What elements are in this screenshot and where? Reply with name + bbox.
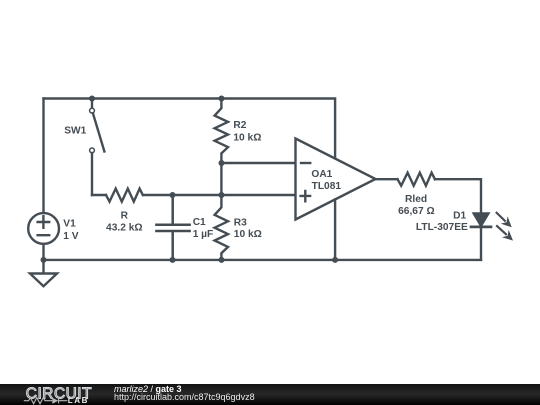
wire top rail	[44, 99, 336, 159]
svg-text:D1: D1	[453, 211, 466, 222]
svg-text:10 kΩ: 10 kΩ	[234, 229, 262, 240]
wire V1 to ground node	[42, 244, 44, 273]
svg-text:1 µF: 1 µF	[193, 229, 214, 240]
svg-text:OA1: OA1	[311, 169, 332, 180]
svg-text:C1: C1	[193, 217, 206, 228]
resistor R2	[215, 99, 228, 164]
svg-text:Rled: Rled	[405, 194, 427, 205]
svg-text:R2: R2	[233, 120, 246, 131]
capacitor C1	[156, 195, 189, 260]
svg-text:66,67 Ω: 66,67 Ω	[398, 206, 435, 217]
LED D1	[474, 213, 489, 225]
wire Rled to LED column	[435, 179, 481, 213]
svg-text:LTL-307EE: LTL-307EE	[416, 222, 468, 233]
voltage source V1	[28, 213, 59, 244]
svg-text:V1: V1	[63, 219, 76, 230]
wire op-amp V- to bottom rail	[334, 200, 336, 260]
junction dots	[41, 96, 339, 263]
CircuitLab logo	[24, 385, 92, 405]
svg-text:TL081: TL081	[312, 181, 342, 192]
wire left rail	[42, 99, 44, 214]
footer bar	[0, 384, 540, 405]
svg-text:1 V: 1 V	[63, 231, 78, 242]
resistor R3	[215, 195, 228, 260]
svg-text:43.2 kΩ: 43.2 kΩ	[106, 222, 143, 233]
svg-text:R: R	[121, 210, 129, 221]
resistor Rled	[398, 173, 435, 186]
wire R2 bottom to R3 top	[220, 163, 222, 195]
svg-text:http://circuitlab.com/c87tc9q6: http://circuitlab.com/c87tc9q6gdvz8	[114, 392, 255, 402]
LED light arrows	[496, 212, 513, 241]
wire bottom rail	[44, 259, 482, 261]
wire op-amp output	[375, 178, 397, 180]
svg-text:10 kΩ: 10 kΩ	[233, 133, 261, 144]
switch SW1	[91, 99, 93, 109]
wire to op-amp minus input	[221, 162, 295, 164]
resistor R	[106, 189, 143, 202]
svg-text:R3: R3	[234, 217, 247, 228]
svg-text:LAB: LAB	[68, 396, 89, 405]
wire R to op-amp plus input	[143, 194, 296, 196]
ground	[30, 274, 57, 287]
svg-text:SW1: SW1	[64, 126, 86, 137]
labels	[63, 120, 468, 242]
op-amp OA1	[296, 139, 376, 220]
wire switch to resistor R	[92, 194, 106, 196]
